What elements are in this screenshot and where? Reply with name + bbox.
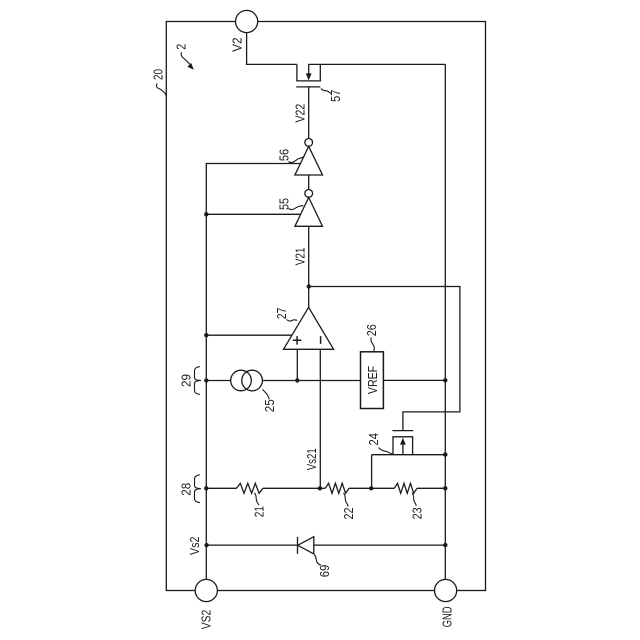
svg-text:V2: V2 <box>230 37 245 52</box>
svg-text:2: 2 <box>174 44 189 50</box>
svg-text:22: 22 <box>341 508 356 520</box>
svg-text:28: 28 <box>178 483 193 496</box>
wire row 28 segment R21 to Vs21 node <box>263 487 325 489</box>
svg-text:GND: GND <box>440 606 455 627</box>
junction dot V21 node <box>307 284 311 288</box>
svg-text:VREF: VREF <box>365 366 380 394</box>
junction dot left rail inv55 <box>204 212 208 216</box>
resistor R22 <box>325 483 349 493</box>
label 20 leader <box>156 84 166 96</box>
svg-text:V21: V21 <box>293 248 308 266</box>
terminal VS2 <box>195 579 217 601</box>
junction dot right rail row 28 <box>443 486 447 490</box>
terminal V2 <box>236 10 258 32</box>
junction dot left rail op-amp <box>204 333 208 337</box>
wire op-amp 27 supply stub <box>206 334 292 336</box>
transistor Q24 <box>392 431 413 455</box>
wire transistor 57 drain to right rail corner <box>309 63 446 65</box>
label 26 leader <box>371 338 374 352</box>
label 22 leader <box>344 493 349 507</box>
wire row 28 segment rail to R21 <box>206 487 236 489</box>
svg-text:23: 23 <box>409 507 424 519</box>
label 55 leader <box>289 206 304 210</box>
label 29 brace <box>194 367 200 395</box>
junction dot node Vs21 <box>318 486 322 490</box>
label 27 leader <box>287 320 298 322</box>
current source I25 <box>231 370 263 391</box>
wire row 28 segment R23 to right rail <box>417 487 445 489</box>
inverter U55 <box>295 190 323 227</box>
label 56 leader <box>289 157 304 162</box>
diode D69 <box>298 537 314 554</box>
svg-text:26: 26 <box>364 324 379 336</box>
label 57 leader <box>321 89 332 94</box>
op-amp U27 <box>284 307 334 349</box>
wire V2 terminal to transistor 57 source <box>247 32 297 64</box>
label 25 leader <box>263 389 270 399</box>
junction dot right rail row 29 <box>443 378 447 382</box>
label 28 brace <box>194 475 200 503</box>
svg-text:Vs21: Vs21 <box>304 448 319 470</box>
wire transistor 24 to node between R22 R23 <box>371 455 373 489</box>
wire inverter 56 output to inverter 55 <box>308 175 310 189</box>
wire transistor 24 source/drain rail <box>372 454 446 456</box>
svg-text:57: 57 <box>328 90 343 102</box>
terminal GND <box>435 579 457 601</box>
svg-text:24: 24 <box>366 433 381 446</box>
voltage reference U26 VREF box <box>361 352 384 409</box>
label 23 leader <box>412 493 416 506</box>
wire node Vs2 row right segment <box>314 544 446 546</box>
wire right rail (drain net to GND) <box>444 64 446 579</box>
inverter U56 <box>295 139 323 176</box>
wire node Vs2 row left segment <box>207 544 298 546</box>
junction dot left rail row 28 <box>204 486 208 490</box>
svg-text:56: 56 <box>276 149 291 161</box>
svg-text:29: 29 <box>178 374 193 387</box>
svg-text:21: 21 <box>252 506 267 517</box>
svg-text:25: 25 <box>262 399 277 412</box>
svg-text:V22: V22 <box>293 104 308 123</box>
label 21 leader <box>255 493 259 506</box>
junction dot left rail Vs2 row <box>204 543 208 547</box>
svg-text:27: 27 <box>274 308 289 320</box>
svg-text:55: 55 <box>276 198 291 210</box>
svg-text:20: 20 <box>150 69 165 80</box>
svg-text:VS2: VS2 <box>199 610 214 630</box>
transistor Q57 <box>296 64 321 138</box>
resistor R21 <box>237 483 263 493</box>
wire row 28 segment R22 to R23 <box>349 487 394 489</box>
block 20 border <box>166 22 485 591</box>
label 24 leader <box>379 448 393 454</box>
wire inverter 55 supply stub <box>206 213 300 215</box>
junction dot right rail Vs2 row <box>443 543 447 547</box>
junction dot left rail row 29 <box>204 378 208 382</box>
label 2 leader arrow <box>181 52 194 70</box>
svg-text:Vs2: Vs2 <box>187 537 202 555</box>
wire row 29 middle segment <box>262 380 360 382</box>
wire op-amp - input to node Vs21 <box>319 349 321 488</box>
junction dot right rail transistor 24 <box>443 452 447 456</box>
wire V21 to transistor 24 gate <box>309 287 460 431</box>
junction dot node R22 R23 <box>369 486 373 490</box>
wire left rail VS2 <box>206 164 300 580</box>
wire node V21 (op-amp output to inverter 55) <box>308 226 310 307</box>
wire row 29 left segment <box>206 380 230 382</box>
svg-text:69: 69 <box>317 565 332 578</box>
junction dot + input row 29 <box>295 378 299 382</box>
label 69 leader <box>314 555 321 566</box>
wire row 29 right segment <box>383 379 445 381</box>
wire op-amp + input to current source row <box>296 349 298 380</box>
resistor R23 <box>394 483 417 493</box>
